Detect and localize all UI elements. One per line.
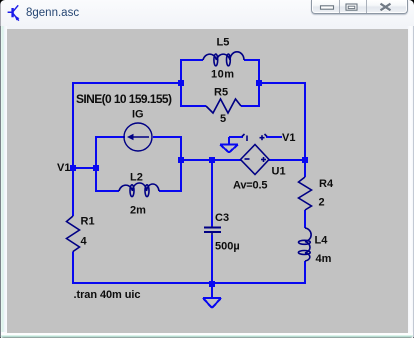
svg-text:R4: R4 [319,178,334,190]
svg-text:L4: L4 [315,235,329,247]
svg-text:SINE(0 10 159.155): SINE(0 10 159.155) [76,92,172,106]
svg-text:V1: V1 [57,162,70,174]
svg-text:U1: U1 [272,166,286,178]
svg-text:Av=0.5: Av=0.5 [233,180,268,192]
svg-text:4: 4 [81,236,88,248]
svg-text:L5: L5 [217,37,230,49]
svg-text:L2: L2 [130,172,143,184]
svg-text:IG: IG [132,109,144,121]
svg-text:4m: 4m [316,253,332,265]
svg-text:10m: 10m [211,69,234,81]
svg-text:C3: C3 [215,212,229,224]
svg-text:.tran 40m uic: .tran 40m uic [74,289,141,301]
svg-text:V1: V1 [282,132,295,144]
svg-text:2m: 2m [130,205,146,217]
svg-text:2: 2 [319,197,325,209]
svg-text:R1: R1 [81,216,95,228]
svg-text:500µ: 500µ [215,241,240,253]
svg-text:R5: R5 [214,87,228,99]
svg-text:5: 5 [220,113,226,125]
